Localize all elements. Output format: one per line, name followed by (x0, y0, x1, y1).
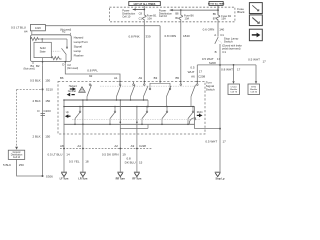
svg-text:0.5 WHT: 0.5 WHT (248, 57, 260, 61)
svg-text:C228: C228 (139, 144, 146, 148)
svg-text:State: State (40, 49, 47, 53)
svg-text:C8: C8 (139, 12, 143, 16)
svg-text:Right: Right (197, 111, 203, 114)
svg-text:17: 17 (263, 59, 267, 63)
svg-text:250: 250 (19, 163, 24, 167)
svg-text:150: 150 (45, 99, 50, 103)
svg-text:A: A (214, 33, 216, 37)
svg-text:RF Turn: RF Turn (132, 178, 142, 181)
svg-text:1026: 1026 (35, 26, 41, 30)
svg-text:(Not used): (Not used) (67, 67, 78, 70)
svg-text:Cell 10: Cell 10 (159, 14, 168, 18)
svg-text:Block: Block (237, 10, 245, 14)
svg-text:HOT AT ALL TIMES: HOT AT ALL TIMES (134, 3, 156, 6)
svg-text:A2: A2 (62, 30, 66, 34)
svg-text:15: 15 (139, 160, 143, 164)
svg-text:Cell 10: Cell 10 (122, 15, 131, 19)
svg-text:15A: 15A (221, 16, 226, 20)
svg-text:A9: A9 (138, 76, 142, 80)
svg-text:17: 17 (223, 140, 227, 144)
svg-text:150: 150 (45, 135, 50, 139)
svg-text:B4: B4 (175, 16, 179, 20)
svg-text:Hazard: Hazard (74, 35, 84, 39)
svg-text:Lamp/Turn: Lamp/Turn (74, 40, 89, 44)
svg-text:A2: A2 (114, 144, 118, 148)
svg-text:18: 18 (85, 159, 89, 163)
svg-text:S306: S306 (46, 174, 53, 178)
svg-text:0.5 WHT: 0.5 WHT (205, 140, 217, 144)
svg-text:B2: B2 (36, 64, 40, 68)
svg-text:5 BLK: 5 BLK (3, 163, 11, 167)
svg-text:Lamp: Lamp (74, 49, 82, 53)
svg-text:A1: A1 (114, 76, 118, 80)
svg-text:A9: A9 (131, 144, 135, 148)
svg-text:0.5 LT BLU: 0.5 LT BLU (47, 152, 62, 156)
svg-text:Signal: Signal (74, 44, 83, 48)
svg-text:Cell 34: Cell 34 (250, 92, 258, 94)
svg-text:0.5 YEL: 0.5 YEL (69, 159, 80, 163)
svg-text:Cell 76: Cell 76 (230, 92, 238, 94)
svg-text:17: 17 (217, 57, 221, 61)
svg-text:92: 92 (89, 74, 93, 78)
svg-text:A6: A6 (191, 74, 195, 78)
svg-text:Flasher: Flasher (74, 53, 84, 57)
svg-text:A8: A8 (60, 144, 64, 148)
svg-text:WHT: WHT (188, 70, 195, 74)
svg-text:LR Turn: LR Turn (78, 178, 88, 181)
svg-text:0.5 DK GRN: 0.5 DK GRN (102, 152, 119, 156)
svg-text:B5: B5 (213, 12, 217, 16)
svg-text:Ground: Ground (13, 151, 21, 154)
svg-text:339: 339 (146, 35, 151, 39)
svg-text:B: B (215, 50, 217, 54)
svg-text:B3: B3 (154, 76, 158, 80)
svg-text:10A: 10A (147, 16, 152, 20)
svg-text:0.6 ORN: 0.6 ORN (203, 28, 215, 32)
svg-text:C203: C203 (44, 109, 52, 113)
svg-text:140: 140 (219, 28, 224, 32)
svg-text:C1: C1 (222, 50, 226, 54)
svg-text:Distribution: Distribution (11, 154, 23, 157)
svg-text:Hazard: Hazard (69, 85, 78, 88)
svg-text:Normal: Normal (68, 90, 77, 93)
svg-text:Switch: Switch (224, 40, 233, 44)
svg-text:A4: A4 (77, 144, 81, 148)
svg-text:LF Turn: LF Turn (60, 178, 69, 181)
svg-text:C208: C208 (198, 74, 205, 78)
svg-text:2 BLK: 2 BLK (33, 99, 41, 103)
svg-text:Stop Lp: Stop Lp (216, 178, 225, 181)
svg-text:0.8 PPL: 0.8 PPL (87, 69, 98, 73)
svg-text:D: D (62, 63, 64, 67)
svg-text:0.8 ORN: 0.8 ORN (165, 34, 177, 38)
svg-text:S210: S210 (46, 88, 53, 92)
svg-text:C1: C1 (139, 17, 143, 21)
svg-text:14: 14 (66, 152, 70, 156)
svg-text:B7: B7 (213, 17, 217, 21)
svg-text:RR Turn: RR Turn (116, 178, 126, 181)
svg-text:10A: 10A (185, 16, 190, 20)
svg-text:17: 17 (237, 68, 241, 72)
svg-text:(Not used): (Not used) (24, 68, 35, 71)
svg-text:B5: B5 (175, 76, 179, 80)
svg-text:B6: B6 (60, 76, 64, 80)
svg-text:150: 150 (45, 79, 50, 83)
svg-text:0.8 WHT: 0.8 WHT (221, 68, 233, 72)
svg-text:Cell 14: Cell 14 (13, 157, 21, 159)
svg-text:0.5 BLK: 0.5 BLK (30, 79, 41, 83)
svg-text:2 BLK: 2 BLK (33, 135, 41, 139)
svg-text:B8: B8 (175, 11, 179, 15)
svg-text:DK BLU: DK BLU (125, 160, 136, 164)
svg-text:S208: S208 (209, 61, 216, 65)
svg-text:0.8 PNK: 0.8 PNK (129, 35, 140, 39)
svg-text:Solid: Solid (40, 46, 46, 50)
svg-text:HOT AT ALL TIMES: HOT AT ALL TIMES (208, 3, 225, 6)
svg-text:A4: A4 (24, 29, 28, 33)
svg-text:17: 17 (199, 70, 203, 74)
svg-text:1840: 1840 (183, 34, 190, 38)
svg-text:Switch: Switch (206, 88, 215, 92)
